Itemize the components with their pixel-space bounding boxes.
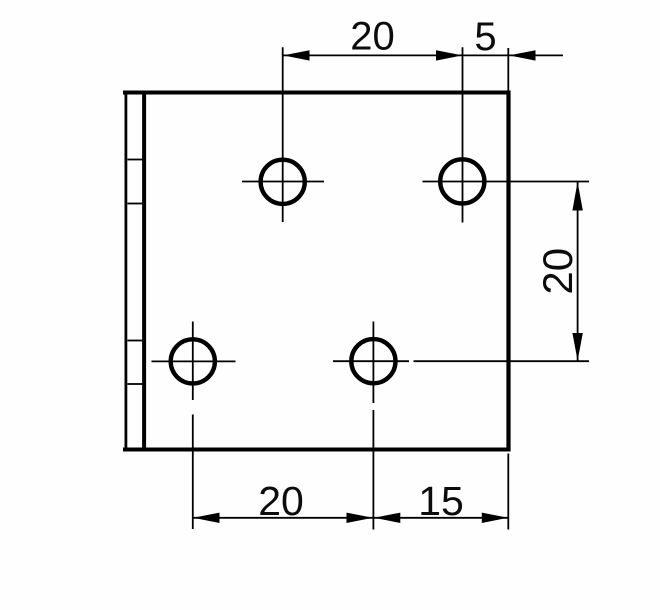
hidden hole line (edge view, bottom hole upper tangent): [128, 340, 143, 342]
arrowhead top-left (tip 283): [283, 50, 309, 60]
hidden hole line (edge view, top hole lower tangent): [128, 203, 143, 205]
plate bottom edge: [123, 448, 511, 452]
svg-text:20: 20: [350, 15, 395, 59]
svg-text:20: 20: [534, 248, 581, 295]
hidden hole line (edge view, bottom hole lower tangent): [128, 383, 143, 385]
centerline horizontal main segment, hole bottom-right: [333, 360, 409, 362]
arrowhead bottom-middle-left (tip 373): [347, 513, 373, 523]
arrowhead top-right outside (tip 509): [509, 50, 536, 60]
arrowhead right-top (tip up): [572, 182, 582, 211]
centerline vertical upper segment, hole bottom-right: [372, 322, 374, 404]
svg-text:20: 20: [258, 478, 304, 524]
centerline horizontal, hole top-left: [242, 181, 324, 183]
centerline vertical + extension line, hole top-right: [462, 47, 464, 222]
hole bottom-left: [171, 339, 215, 383]
plate left outer edge (flange thickness): [125, 91, 128, 452]
centerline horizontal + extension line, hole top-right: [423, 181, 590, 183]
plate top edge: [123, 91, 511, 95]
centerline vertical upper segment, hole bottom-left: [192, 322, 194, 401]
centerline vertical extension to dimension, hole bottom-right: [372, 410, 374, 530]
hidden hole line (edge view, top hole upper tangent): [128, 159, 143, 161]
svg-text:15: 15: [418, 478, 464, 524]
hole top-right: [440, 159, 484, 203]
plate left bend line: [142, 93, 146, 450]
arrowhead bottom-right (tip 508): [482, 513, 508, 523]
plate right edge: [506, 91, 510, 452]
top dimension line: [283, 54, 563, 56]
arrowhead top-middle (tip 462): [436, 50, 462, 60]
arrowhead bottom-middle-right (tip 374): [374, 513, 400, 523]
bottom dimension line: [193, 517, 508, 519]
arrowhead right-bottom (tip down): [572, 333, 582, 361]
arrowhead bottom-left (tip 193): [193, 513, 219, 523]
extension line, plate right edge above: [507, 48, 509, 91]
extension line, plate right edge below: [507, 454, 509, 530]
svg-text:5: 5: [474, 15, 496, 59]
right dimension line: [577, 182, 579, 361]
centerline horizontal, hole bottom-left: [152, 360, 236, 362]
centerline vertical extension to dimension, hole bottom-left: [192, 415, 194, 530]
centerline horizontal extension to right dimension, hole bottom-right: [414, 360, 590, 362]
hole top-left: [261, 160, 305, 204]
hole bottom-right: [351, 339, 395, 383]
centerline vertical + extension line, hole top-left: [282, 47, 284, 222]
